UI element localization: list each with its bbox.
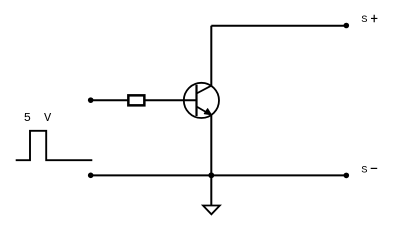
wire: resistor to base xyxy=(145,99,197,101)
wire: bottom rail S- xyxy=(91,174,347,176)
wire: junction to ground xyxy=(210,175,212,205)
transistor Q1: base bar xyxy=(195,85,197,116)
label S+ xyxy=(361,14,377,26)
label S- xyxy=(361,165,377,177)
ground xyxy=(203,206,220,215)
node: S+ terminal dot xyxy=(344,23,350,29)
svg-text:5: 5 xyxy=(24,111,31,125)
transistor Q1: collector stroke xyxy=(197,86,212,94)
transistor Q1: circle xyxy=(184,83,219,118)
wire: emitter vertical to bottom rail xyxy=(210,115,212,175)
node: emitter/ground junction dot xyxy=(208,172,214,178)
wire: top rail from collector to S+ terminal xyxy=(211,25,346,27)
wire: base input to resistor xyxy=(91,99,128,101)
svg-text:S: S xyxy=(361,165,367,177)
resistor R1 (box) xyxy=(128,95,144,105)
wire: collector vertical xyxy=(210,26,212,86)
transistor Q1: emitter arrowhead xyxy=(204,109,211,115)
node: bottom left terminal dot xyxy=(88,173,94,179)
transistor Q1: emitter stroke xyxy=(197,107,212,116)
svg-text:S: S xyxy=(361,14,367,26)
label 5 V xyxy=(24,111,52,125)
pulse stimulus waveform xyxy=(16,131,93,160)
svg-text:V: V xyxy=(44,111,52,125)
node: base input dot xyxy=(88,97,94,103)
node: S- terminal dot xyxy=(344,173,350,179)
